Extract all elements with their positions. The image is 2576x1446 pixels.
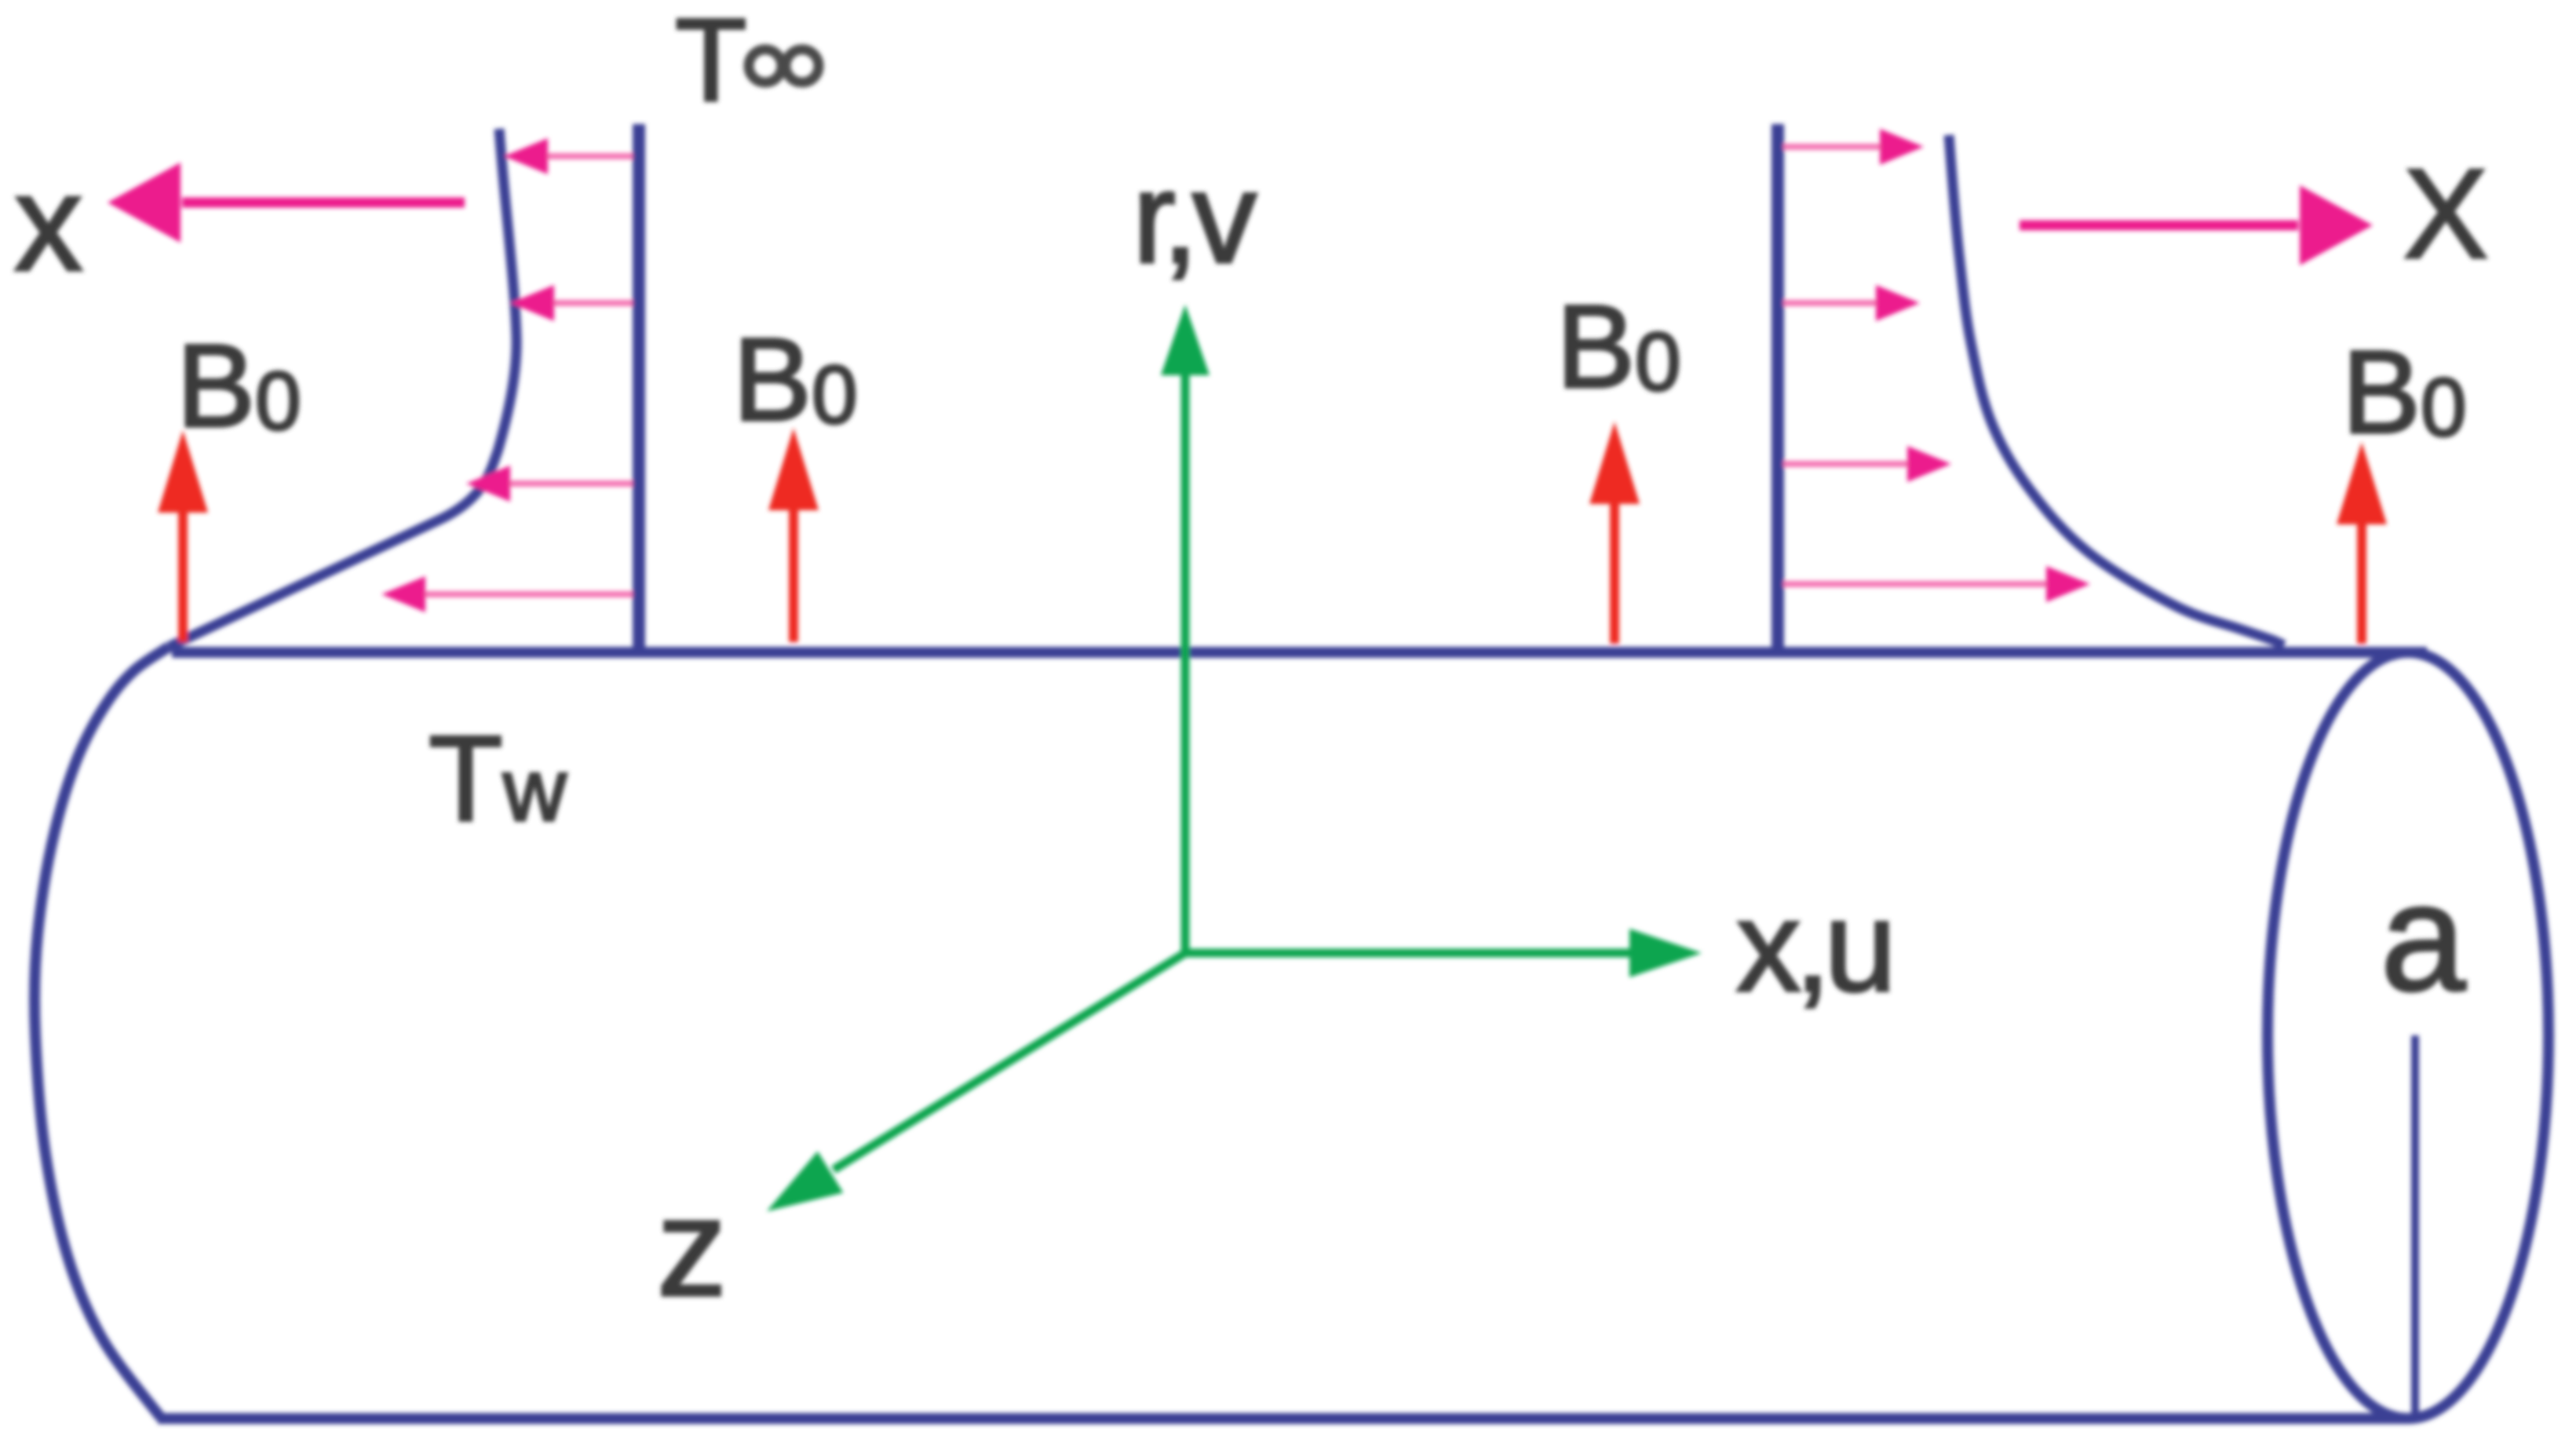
green axis x,u arrowhead (1629, 929, 1702, 977)
svg-text:B0: B0 (177, 320, 301, 451)
big magenta arrow left head (108, 162, 181, 243)
cylinder top surface line (172, 647, 2427, 658)
green axis z arrowhead (767, 1152, 843, 1211)
red arrow B0 #2 head (768, 428, 819, 510)
infinity symbol left circle (749, 49, 782, 82)
right pink velocity arrow 4 head (2046, 566, 2090, 602)
left pink velocity arrow 2 shaft (553, 300, 633, 306)
green axis z diagonal shaft (834, 953, 1185, 1170)
left profile vertical line (633, 124, 645, 647)
big magenta arrow right shaft (2020, 221, 2298, 231)
cylinder end cap ellipse (2268, 652, 2549, 1419)
svg-text:X: X (2403, 143, 2488, 285)
right pink velocity arrow 2 shaft (1783, 300, 1877, 306)
right pink velocity arrow 1 shaft (1783, 144, 1881, 150)
left pink velocity arrow 4 head (381, 576, 425, 612)
right pink velocity arrow 4 shaft (1783, 581, 2048, 587)
svg-text:z: z (657, 1169, 727, 1325)
big magenta arrow right head (2300, 185, 2373, 265)
svg-text:Tw: Tw (429, 710, 567, 846)
svg-text:B0: B0 (733, 313, 857, 445)
svg-text:a: a (2381, 852, 2466, 1023)
left pink velocity arrow 1 shaft (546, 153, 633, 159)
red arrow B0 #4 head (2337, 442, 2387, 524)
green axis r,v arrowhead (1161, 305, 1210, 375)
right pink velocity arrow 1 head (1880, 129, 1924, 165)
radius line of end cap (2411, 1035, 2419, 1413)
right boundary layer curve (1949, 135, 2284, 645)
svg-text:T: T (675, 0, 747, 126)
svg-text:x: x (14, 147, 83, 300)
right pink velocity arrow 3 head (1907, 446, 1951, 482)
red arrow B0 #4 shaft (2357, 520, 2366, 644)
red arrow B0 #3 head (1589, 422, 1640, 504)
infinity symbol right circle (786, 49, 819, 82)
green axis x,u horizontal shaft (1185, 949, 1633, 958)
red arrow B0 #1 head (158, 430, 208, 513)
left boundary layer curve (169, 129, 516, 647)
svg-text:x,u: x,u (1736, 874, 1890, 1018)
red arrow B0 #1 shaft (178, 506, 188, 642)
big magenta arrow left shaft (182, 198, 465, 208)
red arrow B0 #3 shaft (1610, 500, 1619, 644)
red arrow B0 #2 shaft (789, 504, 798, 642)
left pink velocity arrow 3 shaft (509, 480, 633, 487)
green axis r,v vertical shaft (1181, 369, 1190, 953)
right pink velocity arrow 2 head (1876, 285, 1920, 321)
right profile vertical line (1771, 124, 1784, 647)
left pink velocity arrow 4 shaft (424, 591, 633, 597)
svg-text:B0: B0 (1556, 280, 1680, 412)
right pink velocity arrow 3 shaft (1783, 461, 1909, 467)
svg-text:r,v: r,v (1133, 145, 1257, 290)
left pink velocity arrow 2 head (510, 285, 554, 321)
cylinder left silhouette (35, 647, 169, 1418)
svg-text:B0: B0 (2342, 326, 2466, 458)
cylinder bottom line (158, 1413, 2408, 1424)
left pink velocity arrow 3 head (466, 466, 510, 502)
left pink velocity arrow 1 head (504, 138, 548, 174)
